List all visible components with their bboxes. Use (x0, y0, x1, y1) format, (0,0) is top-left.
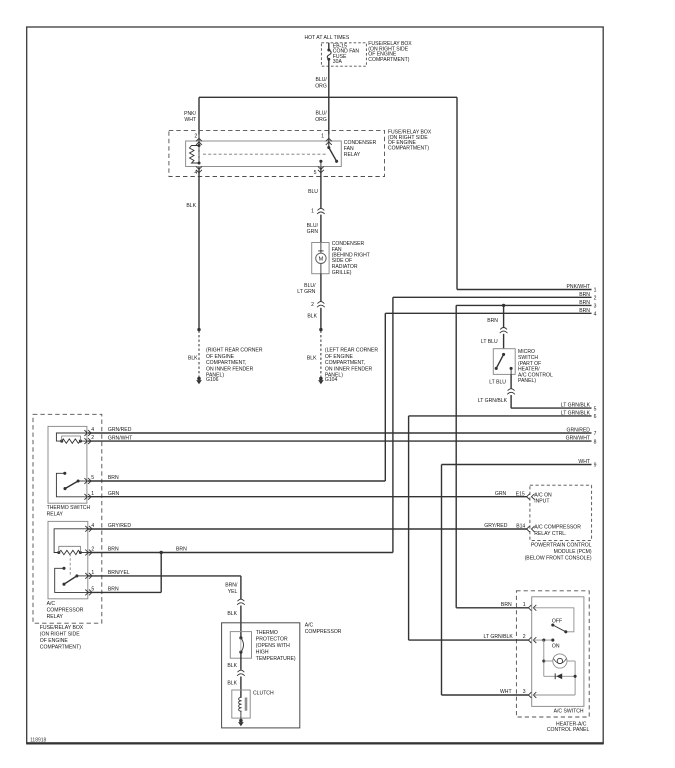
node junction BRN (502, 304, 505, 307)
svg-text:ORG: ORG (315, 117, 327, 123)
svg-text:5: 5 (314, 170, 317, 176)
svg-text:LT BLU: LT BLU (489, 379, 506, 385)
svg-text:PANEL): PANEL) (518, 378, 536, 384)
pin 2 (194, 134, 202, 146)
svg-text:4: 4 (91, 427, 94, 433)
svg-text:LT GRN/BLK: LT GRN/BLK (484, 634, 514, 640)
svg-text:3: 3 (594, 304, 597, 310)
relay internal dashed link (69, 554, 71, 577)
pin E15 A/C ON INPUT (495, 491, 552, 505)
wire BRN to A/C switch pin 1 (456, 602, 528, 608)
svg-text:HOT AT ALL TIMES: HOT AT ALL TIMES (305, 35, 350, 41)
svg-text:GRILLE): GRILLE) (332, 270, 352, 276)
wire LT GRN/BLK to terminal 5 (478, 395, 511, 408)
wire BLU/GRN to condenser fan (307, 215, 321, 243)
pin 2 (523, 634, 537, 643)
svg-text:(OPENS WITH: (OPENS WITH (256, 643, 290, 649)
wire BRN to terminal 3 and A/C switch (456, 300, 591, 608)
wire BRN thermo relay pin 5 to terminal 4 (88, 475, 385, 481)
relay coil (190, 144, 201, 165)
pin 2 (85, 547, 94, 556)
svg-text:1: 1 (91, 570, 94, 576)
svg-text:118918: 118918 (30, 738, 47, 744)
wire WHT to terminal 9 (442, 459, 592, 695)
svg-text:LT BLU: LT BLU (481, 339, 498, 345)
node splice (197, 328, 200, 331)
svg-text:BRN: BRN (108, 547, 119, 553)
thermo protector (230, 632, 251, 659)
svg-text:LT GRN/BLK: LT GRN/BLK (561, 410, 591, 416)
svg-text:BLU/: BLU/ (315, 111, 327, 117)
A/C compressor box (222, 623, 300, 728)
diode (544, 673, 577, 679)
wire BRN A/C relay pin 5 to junction (88, 553, 161, 593)
svg-text:FUSE/RELAY BOX: FUSE/RELAY BOX (40, 625, 84, 631)
svg-text:A/C: A/C (305, 623, 314, 629)
svg-text:GRN: GRN (108, 491, 120, 497)
svg-text:CONTROL PANEL: CONTROL PANEL (547, 727, 590, 733)
svg-text:GRN/RED: GRN/RED (108, 427, 132, 433)
pin 1 (523, 602, 537, 611)
svg-text:BLK: BLK (227, 681, 237, 687)
wire BLU/ORG fuse to condenser fan relay pin 1 (315, 60, 329, 134)
svg-text:(ON RIGHT SIDE: (ON RIGHT SIDE (40, 632, 80, 638)
svg-text:POWERTRAIN CONTROL: POWERTRAIN CONTROL (531, 543, 592, 549)
relay switch contacts (319, 146, 338, 167)
svg-text:BRN: BRN (579, 300, 590, 306)
svg-text:9: 9 (594, 463, 597, 469)
wire LT BLU from micro switch (489, 374, 511, 388)
svg-text:GRY/RED: GRY/RED (484, 523, 507, 529)
svg-text:A/C ON: A/C ON (534, 492, 552, 498)
svg-text:OF ENGINE: OF ENGINE (325, 354, 354, 360)
svg-text:HIGH: HIGH (256, 650, 269, 656)
svg-text:GRN/WHT: GRN/WHT (108, 435, 132, 441)
svg-text:(RIGHT REAR CORNER: (RIGHT REAR CORNER (206, 348, 263, 354)
wire BLK to thermo protector (227, 606, 241, 638)
wire GRY/RED A/C relay pin 4 to PCM B14 (88, 523, 527, 529)
wire BLK protector to connector (227, 652, 241, 670)
powertrain control module (PCM, dashed) (530, 485, 592, 540)
wire BLK to splice (307, 308, 321, 330)
svg-text:BLU/: BLU/ (315, 77, 327, 83)
svg-text:4: 4 (594, 312, 597, 318)
svg-text:OF ENGINE: OF ENGINE (40, 638, 69, 644)
svg-text:RELAY: RELAY (344, 152, 361, 158)
svg-text:RELAY CTRL.: RELAY CTRL. (534, 531, 566, 537)
ground G106 (197, 377, 201, 381)
pin 1 (321, 133, 332, 147)
svg-text:CLUTCH: CLUTCH (253, 691, 274, 697)
svg-text:OFF: OFF (552, 618, 562, 624)
svg-text:BRN: BRN (579, 308, 590, 314)
svg-text:LT GRN/BLK: LT GRN/BLK (478, 398, 508, 404)
switch ON contact (533, 639, 560, 650)
pin 4 (194, 166, 202, 176)
svg-text:COMPRESSOR: COMPRESSOR (305, 629, 342, 635)
svg-text:2: 2 (311, 302, 314, 308)
wire BRN to terminal 2 (393, 292, 592, 553)
svg-text:BRN: BRN (108, 475, 119, 481)
pin 4 (84, 427, 94, 436)
svg-text:8: 8 (594, 439, 597, 445)
svg-text:3: 3 (523, 689, 526, 695)
svg-text:THERMO: THERMO (256, 630, 278, 636)
svg-text:GRN/WHT: GRN/WHT (566, 436, 590, 442)
wire BRN/YEL A/C relay pin 1 to compressor (88, 570, 241, 599)
wire BRN junction to micro switch (487, 305, 503, 327)
wire BLU relay pin 5 to connector (308, 167, 321, 208)
svg-text:MODULE (PCM): MODULE (PCM) (554, 549, 592, 555)
svg-text:2: 2 (594, 296, 597, 302)
svg-text:1: 1 (523, 602, 526, 608)
svg-text:TEMPERATURE): TEMPERATURE) (256, 656, 296, 662)
wire LT GRN/BLK to A/C switch pin 2 (409, 634, 529, 640)
svg-text:BRN: BRN (176, 547, 187, 553)
svg-text:BRN/: BRN/ (225, 583, 238, 589)
svg-text:BLK: BLK (186, 203, 196, 209)
svg-text:G106: G106 (206, 377, 219, 383)
svg-text:(BELOW FRONT CONSOLE): (BELOW FRONT CONSOLE) (525, 556, 592, 562)
ground G104 (319, 377, 323, 381)
svg-text:2: 2 (91, 547, 94, 553)
svg-text:LT GRN: LT GRN (297, 289, 316, 295)
relay coil (54, 529, 88, 555)
svg-text:BRN: BRN (487, 318, 498, 324)
svg-text:COMPARTMENT): COMPARTMENT) (388, 146, 429, 152)
wire WHT to A/C switch pin 3 (442, 689, 529, 695)
connector (508, 389, 515, 391)
fuse/relay box (condenser fan relay, dashed) (169, 130, 385, 176)
wire BRN to terminal 4 (385, 308, 591, 481)
svg-text:5: 5 (91, 586, 94, 592)
svg-text:7: 7 (594, 431, 597, 437)
svg-text:GRN/RED: GRN/RED (567, 428, 591, 434)
wire BLK dashed to G106 (188, 331, 199, 378)
pin 3 (523, 689, 537, 698)
svg-text:2: 2 (523, 634, 526, 640)
svg-text:2: 2 (91, 435, 94, 441)
wire BLK relay pin 4 to ground (186, 167, 199, 330)
relay switch contacts (55, 567, 88, 593)
case ground (238, 718, 244, 726)
svg-text:BRN/YEL: BRN/YEL (108, 570, 130, 576)
svg-text:LT GRN/BLK: LT GRN/BLK (561, 403, 591, 409)
connector (500, 328, 507, 330)
indicator lamp (542, 640, 575, 695)
wire BLU/LT GRN fan to connector (297, 274, 321, 302)
heater-A/C control panel (dashed) (516, 591, 589, 717)
svg-text:1: 1 (91, 491, 94, 497)
pin 5 (314, 166, 324, 175)
pin 1 (84, 491, 94, 500)
svg-text:A/C SWITCH: A/C SWITCH (554, 708, 584, 714)
svg-text:BLK: BLK (227, 663, 237, 669)
svg-text:4: 4 (91, 523, 94, 529)
wire PNK/WHT relay pin 2 to terminal 1 (184, 97, 591, 290)
switch OFF contact (533, 608, 574, 634)
condenser fan motor M1 (312, 243, 329, 274)
fuse/relay box (left, dashed) (33, 414, 102, 623)
svg-text:ON INNER FENDER: ON INNER FENDER (325, 366, 373, 372)
fuse EB-15 COND FAN FUSE 30A (327, 43, 359, 65)
wire BRN A/C relay pin 2 to terminal 2 (88, 547, 393, 553)
svg-text:BLU: BLU (308, 189, 318, 195)
svg-text:ORG: ORG (315, 84, 327, 90)
svg-text:COMPRESSOR: COMPRESSOR (47, 608, 84, 614)
connector (238, 670, 245, 672)
micro switch S1 (493, 349, 515, 375)
svg-text:COMPARTMENT): COMPARTMENT) (40, 645, 81, 651)
svg-text:PNK/WHT: PNK/WHT (567, 284, 591, 290)
svg-text:1: 1 (594, 288, 597, 294)
svg-text:OF ENGINE: OF ENGINE (206, 354, 235, 360)
svg-text:WHT: WHT (500, 689, 512, 695)
pin 5 (84, 475, 94, 484)
svg-text:RELAY: RELAY (47, 614, 64, 620)
wire GRN/WHT to terminal 8 (88, 435, 592, 441)
node splice (319, 328, 322, 331)
wire BLK dashed to G104 (307, 331, 321, 378)
svg-text:COMPARTMENT): COMPARTMENT) (368, 57, 409, 63)
svg-text:ON INNER FENDER: ON INNER FENDER (206, 366, 254, 372)
wire LT GRN/BLK to terminal 6 (409, 410, 592, 640)
svg-text:G104: G104 (325, 377, 338, 383)
connector C1 pin 1 (311, 208, 325, 214)
svg-text:INPUT: INPUT (534, 499, 549, 505)
svg-text:BLK: BLK (188, 356, 198, 362)
A/C compressor relay K3 (48, 521, 88, 598)
wire LT BLU to micro switch (481, 334, 504, 349)
svg-text:E15: E15 (516, 491, 525, 497)
wire LT GRN/BLK to terminal 5 (511, 403, 592, 409)
pin B14 A/C COMPRESSOR RELAY CTRL (484, 523, 581, 537)
svg-text:1: 1 (311, 209, 314, 215)
thermo switch relay K2 (48, 426, 87, 503)
wire BLK to clutch (227, 677, 241, 698)
connector C1 pin 2 (311, 302, 325, 308)
relay coil (56, 433, 87, 443)
node junction BRN (160, 551, 163, 554)
compressor clutch coil (232, 690, 250, 718)
svg-text:6: 6 (594, 414, 597, 420)
svg-text:B14: B14 (516, 523, 525, 529)
svg-text:5: 5 (594, 406, 597, 412)
wire GRN/RED to terminal 7 (88, 427, 592, 433)
svg-text:WHT: WHT (578, 459, 590, 465)
wire BRN/YEL label + connector (225, 583, 244, 605)
relay switch contacts (56, 472, 87, 497)
svg-text:THERMO SWITCH: THERMO SWITCH (47, 505, 91, 511)
svg-text:ON: ON (552, 643, 560, 649)
svg-text:BRN: BRN (501, 602, 512, 608)
switch pin 3 internal (533, 694, 575, 696)
condenser fan relay K1 (186, 141, 342, 167)
svg-text:30A: 30A (333, 59, 343, 65)
pin 1 (85, 570, 94, 579)
svg-text:(LEFT REAR CORNER: (LEFT REAR CORNER (325, 348, 378, 354)
pin 4 (85, 523, 94, 532)
svg-text:2: 2 (194, 134, 197, 140)
svg-text:YEL: YEL (228, 589, 238, 595)
svg-text:BRN: BRN (108, 587, 119, 593)
svg-text:BLK: BLK (307, 356, 317, 362)
svg-text:BLK: BLK (307, 314, 317, 320)
wire GRN thermo relay pin 1 to PCM E15 (88, 491, 527, 497)
svg-text:M: M (319, 257, 324, 263)
svg-text:BRN: BRN (579, 292, 590, 298)
svg-text:WHT: WHT (184, 117, 196, 123)
svg-text:GRN: GRN (307, 229, 319, 235)
svg-text:GRN: GRN (495, 491, 507, 497)
svg-text:COMPARTMENT,: COMPARTMENT, (325, 360, 365, 366)
svg-text:A/C COMPRESSOR: A/C COMPRESSOR (534, 525, 581, 531)
pin 2 (84, 435, 94, 444)
svg-text:BLK: BLK (227, 611, 237, 617)
svg-text:1: 1 (321, 133, 324, 139)
svg-text:COMPARTMENT,: COMPARTMENT, (206, 360, 246, 366)
fuse/relay box (top, dashed) (321, 43, 366, 66)
svg-text:PROTECTOR: PROTECTOR (256, 636, 288, 642)
pin 5 (85, 586, 94, 595)
svg-text:GRY/RED: GRY/RED (108, 523, 131, 529)
relay internal dashed link (203, 153, 326, 155)
svg-text:5: 5 (91, 475, 94, 481)
svg-text:A/C: A/C (47, 601, 56, 607)
A/C switch S2 (532, 597, 584, 707)
svg-text:RELAY: RELAY (47, 512, 64, 518)
